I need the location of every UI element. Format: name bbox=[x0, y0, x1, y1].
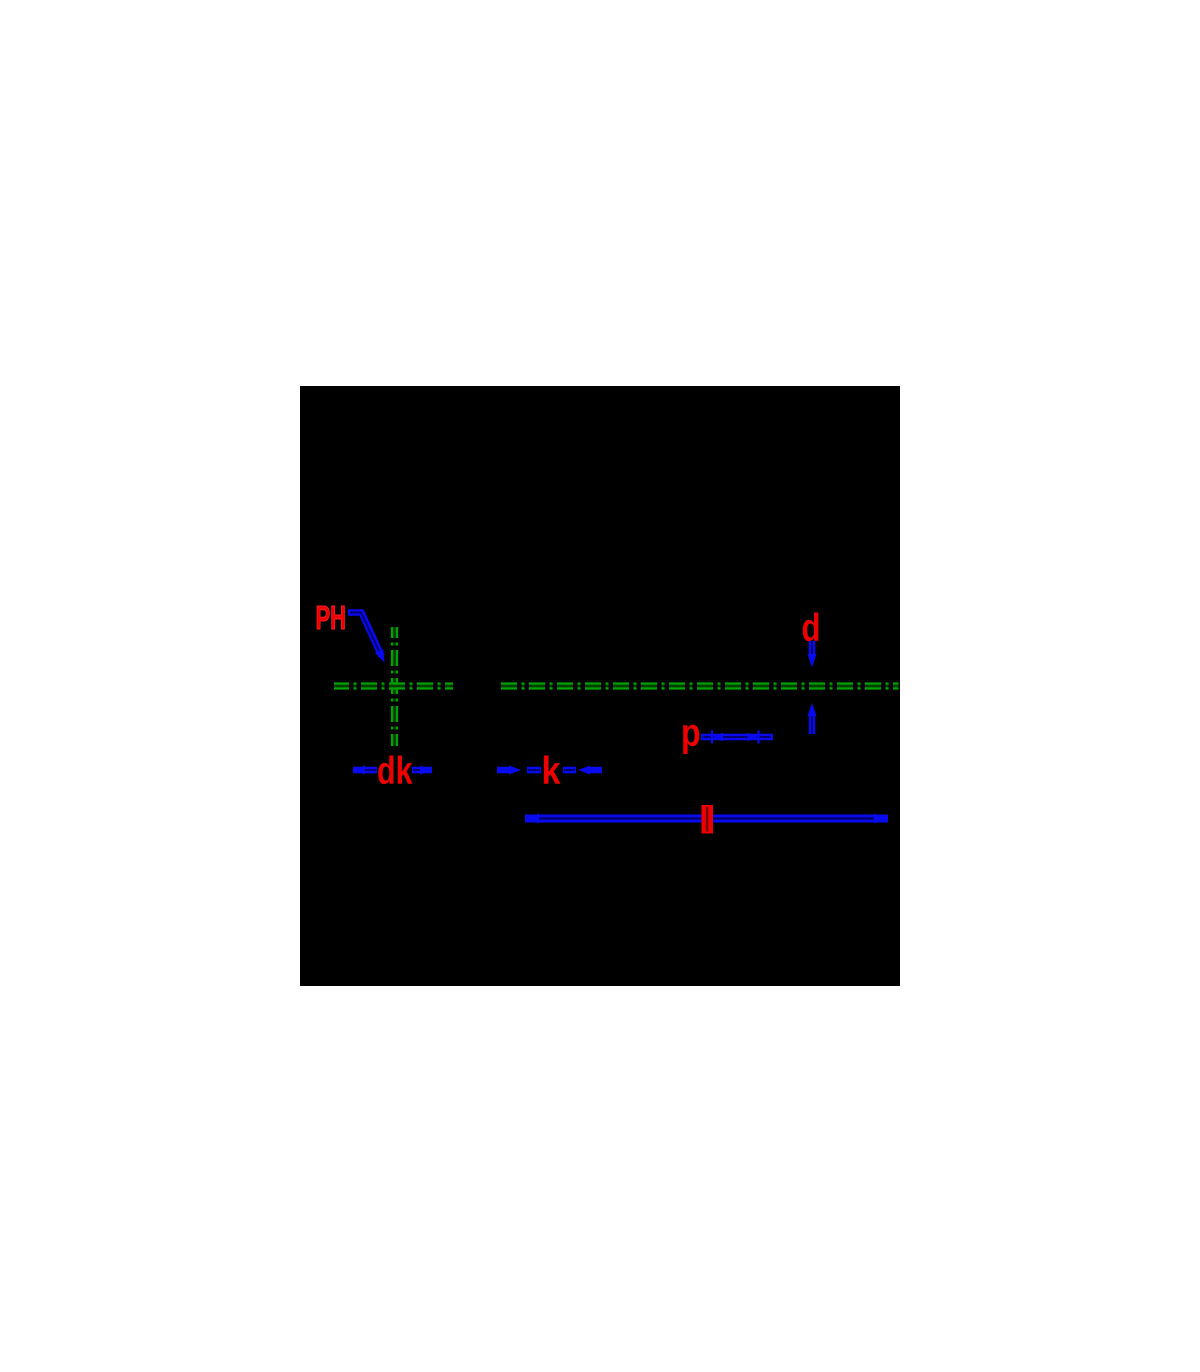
svg-text:k: k bbox=[542, 750, 561, 793]
p extension ticks bbox=[712, 731, 759, 744]
p dimension line bbox=[701, 734, 773, 741]
dk dimension left arrow bbox=[353, 766, 377, 775]
k dimension left arrow bbox=[497, 766, 541, 775]
l arrowheads bbox=[525, 814, 539, 824]
black drawing canvas bbox=[300, 386, 900, 986]
svg-text:d: d bbox=[802, 607, 821, 650]
l dimension line bbox=[525, 815, 888, 823]
d upper arrow (points down to shank) bbox=[808, 641, 817, 668]
p arrowheads bbox=[712, 733, 723, 741]
side view horizontal centerline / screw axis bbox=[501, 682, 899, 689]
d lower arrow (points up to shank) bbox=[808, 703, 817, 734]
dk dimension right arrow bbox=[412, 766, 432, 775]
svg-text:PH: PH bbox=[316, 599, 347, 636]
svg-text:dk: dk bbox=[377, 750, 413, 793]
k dimension right arrow bbox=[563, 766, 602, 775]
head-on view horizontal centerline bbox=[334, 682, 453, 689]
PH leader line bbox=[348, 613, 382, 657]
label l bbox=[702, 805, 714, 834]
head-on view vertical centerline bbox=[391, 627, 398, 746]
PH leader arrowhead bbox=[375, 649, 385, 663]
svg-text:p: p bbox=[681, 712, 701, 755]
